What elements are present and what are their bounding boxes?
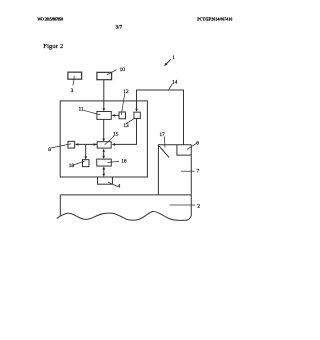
box 16	[97, 159, 112, 166]
region 2 container: top edge	[60, 194, 191, 196]
leader for label 16	[108, 161, 119, 162]
label 4	[118, 184, 121, 190]
leader for label 7	[181, 170, 195, 172]
leader for label 11	[84, 110, 101, 115]
arrowhead into box 8 right edge	[75, 143, 78, 146]
leader for label 14	[169, 84, 173, 90]
svg-text:4: 4	[118, 184, 121, 190]
label 11	[79, 106, 84, 112]
box 4 (below outer box)	[98, 177, 113, 184]
arrowhead into box 15 left edge	[94, 143, 97, 146]
box 8 (left small box)	[68, 141, 75, 148]
wire box11 -> box15	[103, 119, 105, 140]
leader for label 2	[170, 204, 195, 206]
svg-text:2: 2	[197, 204, 200, 210]
leader for label 18	[74, 161, 85, 165]
arrowhead into box 18 top	[84, 156, 87, 159]
leader for label 15	[105, 136, 114, 145]
label 10	[120, 67, 126, 73]
wire box13 -> box15 (down then left)	[113, 119, 137, 145]
label 6	[196, 141, 199, 147]
svg-text:17: 17	[159, 132, 165, 138]
label 12	[123, 89, 129, 95]
arrowhead into box 15 top	[102, 139, 105, 142]
figure caption: Figur 2	[43, 43, 63, 50]
label 1	[172, 55, 175, 61]
header left: publication number	[37, 17, 63, 21]
leader for label 4	[108, 182, 117, 186]
wire box16 <-> box4 (double arrow)	[103, 168, 105, 176]
right edge of region 7 / region 2	[190, 145, 192, 216]
svg-text:3/7: 3/7	[116, 25, 123, 30]
svg-text:13: 13	[123, 123, 129, 129]
svg-text:10: 10	[120, 67, 126, 73]
header right: application number	[197, 18, 232, 22]
box 18	[83, 160, 89, 167]
diagonal chute inside region 7	[159, 146, 169, 158]
leader for label 8	[51, 144, 71, 148]
arrowhead into box 11 right edge	[112, 114, 115, 117]
wire 14: box6 top -> up -> left -> down into box 13	[137, 90, 184, 145]
wire box15 -> box8	[76, 143, 98, 145]
label 14	[172, 79, 178, 85]
label 18	[69, 163, 75, 169]
box 13	[134, 112, 140, 118]
box 6 (inlet box, top-right of region 7)	[177, 145, 191, 155]
box 12	[119, 112, 126, 119]
arrow 1 (figure pointer)	[166, 59, 171, 64]
svg-text:6: 6	[196, 141, 199, 147]
box 10 (top-right small box)	[97, 72, 112, 79]
box 15	[97, 142, 111, 148]
box 11	[97, 112, 111, 120]
region 7 housing: left edge and top edge	[158, 145, 191, 195]
svg-text:8: 8	[48, 147, 51, 153]
leader for label 10	[107, 70, 117, 75]
arrowhead into box 11	[103, 108, 106, 111]
region 2 left edge	[59, 195, 61, 217]
outer box (control unit)	[60, 101, 147, 177]
arrowhead into box 15 right edge	[112, 143, 115, 146]
wire junction -> box18	[85, 144, 87, 158]
wire box15 <-> box16 (double arrow)	[103, 150, 105, 157]
label 17	[159, 132, 165, 138]
svg-text:Figur 2: Figur 2	[43, 43, 63, 50]
svg-text:12: 12	[123, 89, 129, 95]
wire box12 -> box11	[112, 114, 119, 116]
svg-text:WO 2015/087850: WO 2015/087850	[37, 17, 63, 21]
svg-text:1: 1	[172, 55, 175, 61]
wavy liquid line	[57, 211, 191, 220]
leader for label 3	[73, 76, 74, 86]
label 15	[113, 132, 119, 138]
leader for label 12	[121, 94, 125, 116]
label 3	[71, 88, 74, 94]
label 13	[123, 123, 129, 129]
wire box10 -> box11	[103, 80, 105, 111]
leader for label 6	[187, 143, 197, 149]
svg-text:PCT/EP2014/067416: PCT/EP2014/067416	[197, 18, 232, 22]
svg-text:16: 16	[121, 159, 127, 165]
svg-text:11: 11	[79, 106, 84, 112]
box 9 (top-left small box)	[68, 72, 82, 79]
label 2	[197, 204, 200, 210]
leader for label 17	[163, 136, 166, 147]
svg-text:18: 18	[69, 163, 75, 169]
leader for label 13	[126, 119, 133, 124]
label 16	[121, 159, 127, 165]
label 8	[48, 147, 51, 153]
label 7	[196, 169, 199, 175]
arrowhead into box 13 top	[135, 109, 138, 112]
svg-text:14: 14	[172, 79, 178, 85]
svg-text:15: 15	[113, 132, 119, 138]
svg-text:7: 7	[196, 169, 199, 175]
svg-text:3: 3	[71, 88, 74, 94]
header center: sheet number 3/7	[116, 25, 123, 30]
